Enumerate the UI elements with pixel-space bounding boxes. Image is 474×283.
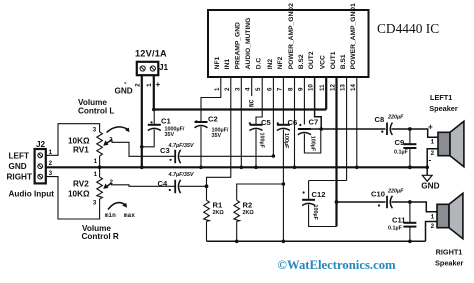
svg-text:OUT1: OUT1 — [330, 51, 337, 69]
capacitor C5 100uF — [250, 125, 263, 168]
svg-text:2: 2 — [224, 87, 231, 91]
svg-text:NF1: NF1 — [214, 56, 221, 69]
svg-text:100µF: 100µF — [283, 133, 289, 149]
svg-text:OUT2: OUT2 — [308, 51, 315, 69]
svg-text:10: 10 — [308, 84, 315, 91]
wire pin12 OUT1 thick down — [335, 77, 337, 202]
svg-text:C2: C2 — [208, 115, 218, 124]
svg-text:100µF: 100µF — [258, 133, 264, 149]
svg-text:R1: R1 — [213, 201, 223, 210]
svg-text:AUDIO_MUTING: AUDIO_MUTING — [245, 18, 252, 70]
svg-text:C10: C10 — [371, 190, 385, 199]
label C5 plus — [249, 122, 251, 124]
svg-text:C1: C1 — [161, 117, 171, 126]
svg-text:13: 13 — [340, 84, 347, 91]
svg-text:100µF: 100µF — [312, 205, 318, 221]
wire C8 to left speaker pin1 — [410, 129, 438, 137]
label C10 plus — [378, 204, 380, 206]
wire pin13 B.S1 down to C12 loop — [346, 77, 348, 181]
svg-text:C6: C6 — [288, 118, 298, 127]
svg-text:2: 2 — [135, 83, 142, 87]
svg-text:+: + — [156, 80, 161, 89]
svg-text:-: - — [124, 78, 127, 87]
wire pin5 jog to C5 top — [256, 77, 262, 124]
svg-text:35V: 35V — [212, 133, 222, 139]
svg-text:0.1µF: 0.1µF — [394, 150, 409, 156]
label C8 plus — [381, 131, 383, 133]
wire pin9 to C7 top — [303, 77, 305, 125]
svg-text:220µF: 220µF — [387, 189, 404, 195]
label C4 plus — [169, 189, 171, 191]
svg-text:max: max — [124, 212, 135, 219]
svg-text:14: 14 — [350, 84, 357, 91]
svg-text:GND: GND — [421, 181, 439, 190]
svg-text:C9: C9 — [395, 138, 405, 147]
svg-text:J1: J1 — [159, 63, 169, 72]
svg-text:GND: GND — [9, 162, 27, 171]
connector J2 audio input — [35, 149, 46, 183]
svg-text:IN2: IN2 — [267, 59, 274, 70]
capacitor C4 4.7uF — [175, 180, 206, 193]
speaker RIGHT1 icon — [437, 193, 463, 238]
svg-text:C7: C7 — [309, 118, 319, 127]
wire right speaker pin2 to bottom rail — [426, 222, 438, 242]
resistor R1 2K — [204, 186, 210, 241]
wire pin6 IN2 down to C3 output node — [272, 77, 274, 156]
svg-text:VCC: VCC — [320, 55, 327, 69]
svg-text:POWER_AMP_GND2: POWER_AMP_GND2 — [288, 3, 295, 69]
svg-text:LEFT1: LEFT1 — [430, 93, 452, 102]
capacitor C7 100uF bootstrap — [298, 129, 321, 153]
svg-text:10KΩ: 10KΩ — [68, 137, 90, 146]
wire OUT1 loop right side — [335, 202, 337, 227]
capacitor C10 220uF — [387, 196, 410, 208]
svg-text:1: 1 — [94, 171, 98, 178]
potentiometer RV2 10K — [97, 167, 175, 199]
svg-text:2: 2 — [431, 150, 435, 157]
svg-text:1: 1 — [431, 213, 435, 220]
bottom rail — [207, 240, 426, 242]
label C3 plus — [170, 159, 172, 161]
wire pin8 POWER_AMP_GND2 to ground rail — [294, 77, 296, 167]
svg-text:7: 7 — [276, 87, 283, 91]
svg-text:C11: C11 — [392, 216, 406, 225]
wire left speaker pin2 to ground rail — [427, 149, 438, 168]
svg-text:5: 5 — [255, 87, 262, 91]
svg-text:1: 1 — [214, 87, 221, 91]
svg-text:4.7µF/35V: 4.7µF/35V — [168, 172, 194, 178]
wire pin1 NF1 elbow to C2 top — [201, 77, 221, 122]
wire OUT1 to C10 — [337, 201, 386, 203]
wire pin14 POWER_AMP_GND1 to ground rail — [356, 77, 358, 167]
svg-text:9: 9 — [297, 87, 304, 91]
capacitor C3 4.7uF — [175, 150, 273, 163]
svg-text:LEFT: LEFT — [9, 152, 29, 161]
svg-text:PREAMP_GND: PREAMP_GND — [235, 22, 242, 69]
speaker LEFT1 icon — [438, 121, 464, 166]
svg-text:B.S1: B.S1 — [340, 54, 347, 69]
svg-text:Speaker: Speaker — [429, 104, 458, 113]
svg-text:RV1: RV1 — [73, 146, 89, 155]
svg-text:6: 6 — [266, 87, 273, 91]
wire pin2 IN1 down-left to R1/C4 node — [207, 77, 231, 186]
wire pin11 VCC riser — [325, 77, 327, 110]
capacitor C2 100uF — [195, 122, 208, 167]
svg-text:4: 4 — [245, 87, 252, 91]
wire J2 pin3 loop to RV2 bottom — [46, 177, 100, 219]
IC CD4440 body — [208, 10, 369, 77]
svg-text:IN1: IN1 — [224, 59, 231, 70]
svg-text:100µF: 100µF — [310, 136, 316, 152]
wire pin3 PREAMP_GND to ground rail — [240, 77, 242, 167]
label C12 plus — [303, 191, 305, 193]
label C7 plus — [299, 124, 301, 126]
wire J1 GND vertical — [141, 76, 143, 168]
svg-text:12V/1A: 12V/1A — [135, 49, 167, 59]
label C2 plus — [195, 120, 197, 122]
svg-text:2: 2 — [49, 160, 53, 167]
svg-text:220µF: 220µF — [387, 115, 404, 121]
svg-text:Control R: Control R — [82, 232, 119, 241]
svg-text:4.7µF/35V: 4.7µF/35V — [168, 143, 194, 149]
svg-text:C5: C5 — [261, 118, 271, 127]
svg-text:1: 1 — [146, 83, 153, 87]
svg-text:RV2: RV2 — [73, 180, 89, 189]
IC pin labels — [214, 3, 357, 69]
svg-text:GND: GND — [115, 87, 133, 96]
wire pin4 stub NC — [251, 77, 253, 96]
svg-text:©WatElectronics.com: ©WatElectronics.com — [278, 258, 397, 272]
svg-text:35V: 35V — [165, 132, 175, 138]
svg-text:Audio Input: Audio Input — [9, 190, 55, 199]
svg-text:C12: C12 — [312, 190, 326, 199]
svg-text:8: 8 — [288, 87, 295, 91]
svg-text:2KΩ: 2KΩ — [243, 210, 255, 216]
svg-text:3: 3 — [93, 200, 97, 207]
wire pin10 OUT2 jog to output line — [315, 77, 322, 129]
svg-text:2: 2 — [109, 137, 113, 144]
capacitor C9 0.1uF — [403, 129, 416, 167]
svg-text:C8: C8 — [375, 115, 385, 124]
IC pin numbers 1-14 — [214, 84, 357, 91]
wire C10 to right speaker pin1 — [410, 202, 437, 212]
svg-text:10KΩ: 10KΩ — [68, 190, 90, 199]
svg-text:POWER_AMP_GND1: POWER_AMP_GND1 — [350, 3, 357, 69]
svg-text:Control L: Control L — [78, 107, 114, 116]
wire J1 +12V vertical — [153, 76, 155, 110]
svg-text:min: min — [105, 212, 116, 219]
svg-text:NC: NC — [249, 99, 256, 107]
svg-text:2: 2 — [109, 179, 113, 186]
connector J1 power 12V — [137, 62, 159, 75]
svg-text:3: 3 — [93, 127, 97, 134]
capacitor C8 220uF — [387, 123, 410, 136]
svg-text:2: 2 — [431, 223, 435, 230]
svg-text:NF2: NF2 — [277, 56, 284, 69]
capacitor C11 0.1uF — [403, 202, 416, 241]
svg-text:1: 1 — [94, 158, 98, 165]
label C1 plus — [150, 121, 152, 123]
svg-text:C4: C4 — [158, 179, 168, 188]
capacitor C12 100uF bootstrap right — [302, 181, 347, 227]
svg-text:B.S2: B.S2 — [298, 54, 305, 69]
curved arrow RV1 — [107, 127, 129, 133]
wire J2 pin1 loop to RV1 top — [46, 124, 100, 156]
svg-text:2KΩ: 2KΩ — [213, 210, 225, 216]
svg-text:1: 1 — [431, 139, 435, 146]
svg-text:RIGHT: RIGHT — [7, 173, 32, 182]
svg-text:D.C: D.C — [256, 58, 263, 70]
curved arrow RV2 — [108, 203, 126, 210]
wire +12V rail — [154, 108, 326, 110]
svg-text:3: 3 — [234, 87, 241, 91]
svg-text:RIGHT1: RIGHT1 — [436, 247, 463, 256]
output line OUT to C8 — [321, 128, 385, 130]
svg-text:CD4440 IC: CD4440 IC — [377, 21, 439, 36]
svg-text:R2: R2 — [243, 201, 253, 210]
potentiometer RV1 10K — [97, 132, 175, 167]
resistor R2 2K — [234, 184, 284, 241]
svg-text:0.1µF: 0.1µF — [388, 226, 403, 232]
svg-text:J2: J2 — [36, 140, 46, 149]
capacitor C1 1000uF — [142, 110, 161, 147]
svg-text:+: + — [428, 123, 433, 132]
label C6 plus — [277, 122, 279, 124]
ground symbol — [422, 167, 432, 181]
capacitor C6 100uF — [277, 125, 290, 242]
wire pin7 to C6 top — [282, 77, 284, 124]
svg-text:Speaker: Speaker — [435, 259, 464, 268]
ground rail from J2 pin2 — [46, 166, 428, 168]
